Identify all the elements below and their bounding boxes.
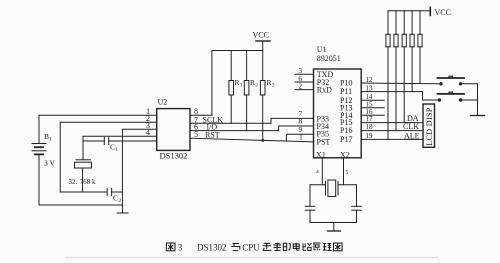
svg-text:B: B: [44, 132, 49, 141]
svg-text:LCD DISP: LCD DISP: [425, 107, 434, 146]
svg-text:2: 2: [119, 199, 122, 204]
svg-text:RST: RST: [205, 130, 220, 139]
svg-text:1: 1: [240, 84, 243, 89]
svg-text:1: 1: [50, 138, 53, 143]
svg-text:C: C: [110, 143, 115, 152]
svg-text:5: 5: [346, 170, 349, 176]
svg-text:13: 13: [366, 84, 374, 92]
svg-text:18: 18: [366, 123, 374, 131]
svg-text:R: R: [267, 78, 272, 87]
svg-text:32.: 32.: [69, 178, 78, 186]
svg-text:3 V: 3 V: [44, 159, 55, 168]
svg-text:VCC: VCC: [435, 8, 451, 17]
svg-text:X1: X1: [316, 151, 326, 160]
svg-text:768 k: 768 k: [80, 178, 96, 186]
svg-text:P17: P17: [340, 135, 352, 144]
svg-text:CPU: CPU: [242, 243, 260, 253]
svg-text:PST: PST: [317, 137, 331, 146]
svg-text:17: 17: [366, 115, 374, 123]
svg-text:DS1302: DS1302: [197, 243, 227, 253]
svg-text:ALE: ALE: [404, 131, 420, 140]
svg-text:VCC: VCC: [253, 31, 269, 40]
svg-text:4: 4: [316, 170, 319, 176]
svg-text:U1: U1: [317, 45, 327, 54]
svg-text:X2: X2: [340, 151, 350, 160]
svg-text:P16: P16: [340, 126, 352, 135]
svg-text:DS1302: DS1302: [160, 151, 188, 161]
svg-text:C: C: [113, 194, 118, 203]
svg-text:2: 2: [256, 84, 259, 89]
svg-text:1: 1: [116, 148, 119, 153]
svg-text:CLK: CLK: [403, 122, 419, 131]
svg-text:1: 1: [299, 133, 303, 142]
svg-text:3: 3: [272, 84, 275, 89]
svg-text:2: 2: [299, 83, 303, 91]
svg-text:3: 3: [178, 243, 183, 253]
svg-text:3: 3: [299, 67, 303, 75]
svg-text:5: 5: [194, 130, 198, 139]
svg-text:RxD: RxD: [317, 85, 332, 94]
svg-text:U2: U2: [158, 98, 168, 107]
svg-text:892051: 892051: [317, 54, 341, 63]
svg-text:4: 4: [146, 128, 150, 137]
svg-text:19: 19: [366, 132, 374, 140]
svg-text:R: R: [250, 78, 255, 87]
svg-text:R: R: [235, 78, 240, 87]
svg-text:12: 12: [366, 76, 374, 84]
